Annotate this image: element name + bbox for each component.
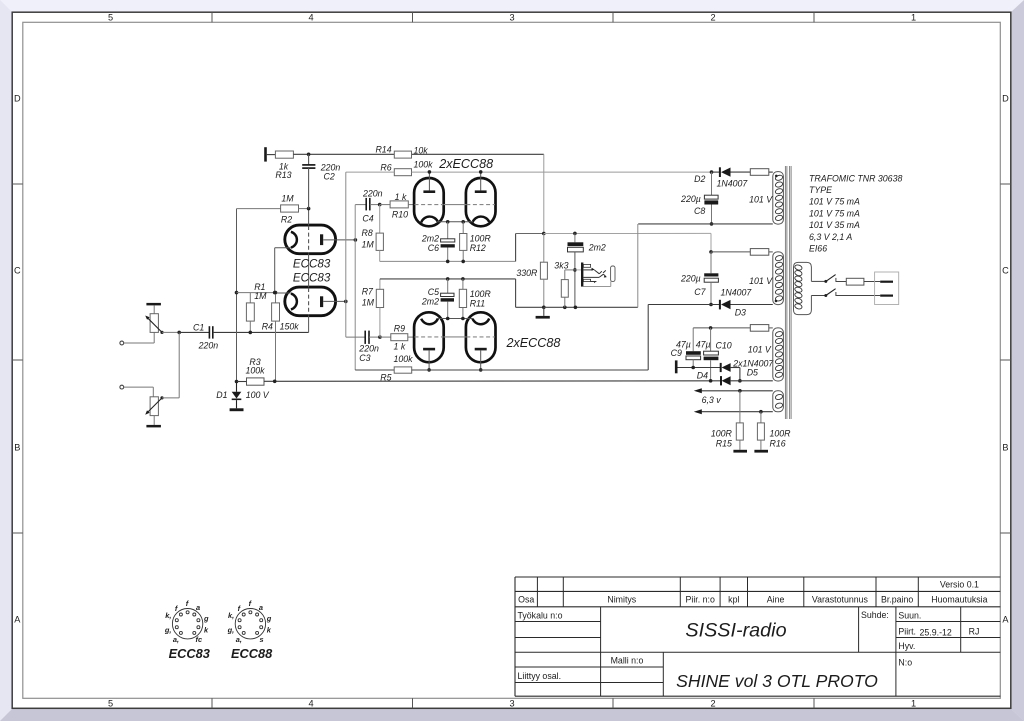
svg-text:TRAFOMIC TNR 30638: TRAFOMIC TNR 30638 xyxy=(809,173,902,183)
svg-text:R2: R2 xyxy=(281,215,292,225)
triode V1b ECC83 xyxy=(285,287,336,316)
anode V1b xyxy=(320,296,323,307)
svg-text:220n: 220n xyxy=(358,344,379,354)
cathode V1b xyxy=(291,294,297,310)
grid V2a xyxy=(415,204,444,206)
resistor R12 xyxy=(462,222,464,234)
wire long rail R3-D4 xyxy=(264,380,721,383)
svg-text:101 V 75 mA: 101 V 75 mA xyxy=(809,197,860,207)
svg-text:1N4007: 1N4007 xyxy=(717,179,749,189)
svg-text:SISSI-radio: SISSI-radio xyxy=(685,620,786,642)
svg-text:k,: k, xyxy=(228,611,234,620)
capacitor 2m2 output xyxy=(574,233,576,242)
ground D1 xyxy=(230,408,244,411)
zone ticks right xyxy=(1000,183,1011,185)
svg-text:Versio 0.1: Versio 0.1 xyxy=(940,580,979,590)
wire B+ rail xyxy=(293,153,543,155)
wire xyxy=(153,332,155,343)
svg-text:A: A xyxy=(1002,615,1009,625)
svg-text:330R: 330R xyxy=(516,268,538,278)
svg-text:B: B xyxy=(1002,443,1008,453)
svg-text:5: 5 xyxy=(108,13,113,23)
svg-text:101 V: 101 V xyxy=(749,194,773,204)
svg-text:4: 4 xyxy=(308,13,313,23)
grid V3a xyxy=(415,336,444,338)
svg-text:R8: R8 xyxy=(362,228,373,238)
fuse winding 3 xyxy=(750,325,769,332)
svg-text:1M: 1M xyxy=(362,297,375,307)
grid link lower xyxy=(444,336,466,338)
svg-text:D2: D2 xyxy=(694,174,705,184)
diode D4 xyxy=(720,376,722,385)
mains switch xyxy=(811,280,825,282)
svg-text:SHINE vol 3 OTL PROTO: SHINE vol 3 OTL PROTO xyxy=(676,671,878,691)
svg-text:Varastotunnus: Varastotunnus xyxy=(812,595,869,605)
capacitor C4 xyxy=(355,204,366,206)
wire xyxy=(124,386,154,388)
svg-text:C: C xyxy=(1002,266,1009,276)
wire xyxy=(162,331,179,333)
mains fuse xyxy=(836,281,846,283)
svg-text:Hyv.: Hyv. xyxy=(898,641,915,651)
wire R6 rail xyxy=(412,171,712,173)
potentiometer P1 xyxy=(150,314,158,333)
cathode rail lower xyxy=(437,318,473,320)
zone ticks top xyxy=(211,12,213,22)
svg-text:Piirt.: Piirt. xyxy=(898,627,916,637)
cathode V1a xyxy=(291,232,297,248)
resistor R10 xyxy=(380,204,390,206)
svg-text:B: B xyxy=(14,443,20,453)
cathode tail V1a xyxy=(275,247,291,249)
svg-text:a,: a, xyxy=(173,635,179,644)
fuse winding 1 xyxy=(750,169,769,176)
capacitor C7 xyxy=(710,252,712,273)
svg-text:Työkalu n:o: Työkalu n:o xyxy=(518,611,563,621)
svg-text:C3: C3 xyxy=(359,353,370,363)
tetrode V3b ECC88 xyxy=(466,312,496,362)
svg-text:Br.paino: Br.paino xyxy=(881,595,913,605)
svg-text:N:o: N:o xyxy=(898,658,912,668)
resistor R11 xyxy=(462,279,464,289)
tetrode V2a ECC88 xyxy=(414,178,444,226)
svg-text:220µ: 220µ xyxy=(680,273,701,283)
svg-text:Huomautuksia: Huomautuksia xyxy=(931,595,987,605)
svg-text:101 V 35 mA: 101 V 35 mA xyxy=(809,220,860,230)
grid wire xyxy=(308,209,310,226)
svg-text:TYPE: TYPE xyxy=(809,185,832,195)
ground pot P1 xyxy=(146,303,161,306)
rail upper cathode network xyxy=(380,260,516,262)
svg-text:D4: D4 xyxy=(697,371,708,381)
wire xyxy=(124,342,155,344)
jack tip terminal xyxy=(611,266,615,281)
supply stub C9 xyxy=(675,360,678,373)
headphone jack xyxy=(575,269,581,271)
svg-text:4: 4 xyxy=(308,699,313,709)
svg-text:1 k: 1 k xyxy=(394,341,406,351)
capacitor C8 xyxy=(711,172,713,195)
svg-text:C: C xyxy=(14,266,21,276)
ground pot P2 xyxy=(153,416,155,425)
resistor R16 xyxy=(760,412,762,423)
potentiometer P2 xyxy=(150,397,158,416)
svg-text:C5: C5 xyxy=(428,287,439,297)
node V1b anode xyxy=(344,300,348,304)
svg-text:g,: g, xyxy=(227,626,235,635)
node cathodes xyxy=(273,291,277,295)
svg-text:R12: R12 xyxy=(470,243,486,253)
svg-text:ECC83: ECC83 xyxy=(293,258,331,271)
wire feedback vertical xyxy=(543,154,545,233)
svg-text:D3: D3 xyxy=(735,307,746,317)
svg-text:2: 2 xyxy=(710,13,715,23)
wire V1a anode to C4 xyxy=(354,205,356,370)
anode lead V1b xyxy=(323,300,346,302)
svg-text:R4: R4 xyxy=(262,322,273,332)
svg-text:A: A xyxy=(14,615,21,625)
cathode V2a xyxy=(421,217,438,223)
svg-text:Suhde:: Suhde: xyxy=(861,610,889,620)
svg-text:3: 3 xyxy=(509,699,514,709)
svg-text:C2: C2 xyxy=(324,172,335,182)
transformer secondary winding 3 (101V) xyxy=(773,328,784,381)
svg-text:R16: R16 xyxy=(770,439,786,449)
svg-text:C1: C1 xyxy=(193,323,204,333)
node grid lower xyxy=(378,335,382,339)
svg-text:k,: k, xyxy=(165,611,171,620)
node output xyxy=(542,232,546,236)
svg-text:ECC88: ECC88 xyxy=(231,646,273,661)
svg-text:100R: 100R xyxy=(711,428,733,438)
svg-text:R13: R13 xyxy=(275,170,291,180)
wire xyxy=(153,305,155,313)
title block xyxy=(515,576,1000,578)
resistor R8 xyxy=(379,205,381,234)
tetrode V2b ECC88 xyxy=(466,178,496,226)
jack sleeve path xyxy=(581,285,611,287)
anode V1a xyxy=(320,234,323,245)
wire cathode rail xyxy=(237,292,275,294)
svg-text:C4: C4 xyxy=(362,213,373,223)
cathode V3b xyxy=(473,319,490,325)
svg-text:100k: 100k xyxy=(245,365,265,375)
capacitor C9 xyxy=(692,328,694,351)
svg-text:2xECC88: 2xECC88 xyxy=(505,336,560,350)
svg-text:101 V: 101 V xyxy=(748,344,772,354)
resistor 3k3 xyxy=(573,268,577,272)
tetrode V3a ECC88 xyxy=(414,312,444,362)
node IN xyxy=(177,331,181,335)
input jack J2 xyxy=(120,385,124,389)
svg-text:Liittyy osal.: Liittyy osal. xyxy=(518,671,562,681)
zone ticks left xyxy=(12,183,23,185)
triode V1a ECC83 xyxy=(285,225,336,254)
svg-text:3: 3 xyxy=(509,13,514,23)
svg-text:RJ: RJ xyxy=(969,627,980,637)
anode V3b xyxy=(475,348,487,351)
svg-text:C7: C7 xyxy=(694,287,706,297)
grid link xyxy=(444,204,466,206)
svg-text:5: 5 xyxy=(108,699,113,709)
svg-text:g: g xyxy=(266,614,272,623)
svg-text:6,3 V 2,1 A: 6,3 V 2,1 A xyxy=(809,232,852,242)
capacitor C1 xyxy=(179,331,209,333)
fuse winding 2 xyxy=(750,249,769,256)
cathode V2b xyxy=(473,217,490,223)
svg-text:R10: R10 xyxy=(392,209,408,219)
anode V2a xyxy=(423,190,435,193)
wire output to winding 2 xyxy=(710,233,712,252)
svg-text:100R: 100R xyxy=(470,233,492,243)
grid V1a xyxy=(308,226,310,253)
svg-text:g: g xyxy=(203,614,209,623)
svg-text:3k3: 3k3 xyxy=(554,260,568,270)
heater line 1 xyxy=(701,390,773,392)
svg-text:Malli n:o: Malli n:o xyxy=(611,656,644,666)
svg-text:100R: 100R xyxy=(470,289,492,299)
diode D3 xyxy=(648,304,720,306)
wiper arrow P1 xyxy=(147,317,162,332)
cathode rail upper xyxy=(437,221,473,223)
svg-text:100R: 100R xyxy=(770,428,792,438)
svg-text:Piir. n:o: Piir. n:o xyxy=(686,595,715,605)
tube socket ECC83 pinout xyxy=(172,609,202,639)
svg-text:220n: 220n xyxy=(362,189,383,199)
wire D3 to anode rail xyxy=(647,305,649,371)
node V1a anode xyxy=(354,238,358,242)
diode D2 xyxy=(712,171,720,173)
svg-text:R5: R5 xyxy=(380,372,391,382)
grid V2b xyxy=(466,204,495,206)
svg-text:fc: fc xyxy=(196,635,203,644)
svg-text:C6: C6 xyxy=(428,243,439,253)
capacitor C5 xyxy=(447,279,449,293)
grid V1b xyxy=(308,288,310,315)
svg-text:D: D xyxy=(14,94,21,104)
zener D1 xyxy=(236,382,238,392)
wire R6 left xyxy=(346,171,395,173)
svg-text:2xECC88: 2xECC88 xyxy=(438,157,493,171)
supply stub resistor R13 xyxy=(264,147,267,161)
wire vertical node A xyxy=(236,209,238,382)
transformer secondary winding 2 (101V) xyxy=(773,252,784,305)
svg-text:2m2: 2m2 xyxy=(588,242,606,252)
ground rail xyxy=(542,306,546,310)
heater line 2 xyxy=(701,411,773,413)
wire xyxy=(162,397,179,399)
resistor R5 xyxy=(355,369,394,371)
svg-text:R14: R14 xyxy=(375,144,391,154)
capacitor C2 xyxy=(308,154,310,164)
svg-text:1N4007: 1N4007 xyxy=(721,288,753,298)
svg-text:1: 1 xyxy=(911,699,916,709)
input jack J1 xyxy=(120,341,124,345)
svg-text:1: 1 xyxy=(911,13,916,23)
svg-text:2m2: 2m2 xyxy=(421,296,439,306)
mains plug xyxy=(875,272,899,305)
svg-text:25.9.-12: 25.9.-12 xyxy=(920,628,952,638)
wiper arrow P2 xyxy=(147,398,162,413)
svg-text:a,: a, xyxy=(236,635,242,644)
anode V2b xyxy=(475,190,487,193)
svg-text:101 V 75 mA: 101 V 75 mA xyxy=(809,208,860,218)
svg-text:kpl: kpl xyxy=(728,595,739,605)
node xyxy=(235,291,239,295)
svg-text:150k: 150k xyxy=(280,322,300,332)
svg-text:1M: 1M xyxy=(281,193,294,203)
resistor R7 xyxy=(379,279,381,289)
svg-text:Aine: Aine xyxy=(767,595,785,605)
svg-text:100 V: 100 V xyxy=(246,390,270,400)
rail lower to ground xyxy=(515,279,517,307)
capacitor C6 xyxy=(447,222,449,239)
transformer core xyxy=(784,166,786,419)
rail lower top xyxy=(380,278,516,280)
svg-text:100k: 100k xyxy=(393,354,413,364)
svg-text:C8: C8 xyxy=(694,206,705,216)
svg-text:100k: 100k xyxy=(414,159,434,169)
svg-text:C10: C10 xyxy=(716,341,732,351)
svg-text:R6: R6 xyxy=(380,163,391,173)
wire winding 2 top xyxy=(711,251,750,253)
svg-text:g,: g, xyxy=(164,626,172,635)
svg-text:a: a xyxy=(196,603,200,612)
resistor 330R xyxy=(543,234,545,263)
svg-text:Osa: Osa xyxy=(518,595,534,605)
node grid upper xyxy=(378,203,382,207)
resistor R2 xyxy=(237,208,281,210)
capacitor C3 xyxy=(346,336,365,338)
capacitor C10 xyxy=(710,328,712,351)
svg-text:R15: R15 xyxy=(716,439,732,449)
svg-text:D1: D1 xyxy=(216,390,227,400)
rail C8 ground xyxy=(710,222,714,226)
svg-text:R9: R9 xyxy=(394,323,405,333)
svg-text:220µ: 220µ xyxy=(680,194,701,204)
transformer primary winding xyxy=(794,262,812,314)
svg-text:R7: R7 xyxy=(362,286,374,296)
svg-text:2m2: 2m2 xyxy=(421,233,439,243)
svg-text:1M: 1M xyxy=(254,291,267,301)
wire output rail xyxy=(544,232,711,234)
svg-text:C9: C9 xyxy=(671,348,682,358)
svg-text:10k: 10k xyxy=(414,145,429,155)
svg-text:Nimitys: Nimitys xyxy=(607,595,636,605)
svg-text:R11: R11 xyxy=(470,298,486,308)
svg-text:D5: D5 xyxy=(747,368,758,378)
cathode tail V1b xyxy=(275,292,291,294)
cathode V3a xyxy=(421,319,438,325)
wire C1 to grid xyxy=(213,331,309,333)
zone ticks bottom xyxy=(211,698,213,708)
node D2 xyxy=(710,170,714,174)
transformer heater winding (6.3V) xyxy=(773,391,784,412)
svg-text:s: s xyxy=(260,635,264,644)
ground symbol xyxy=(543,307,545,316)
resistor R1 xyxy=(249,293,251,303)
svg-text:1M: 1M xyxy=(362,240,375,250)
anode rail lower xyxy=(412,369,649,371)
resistor R9 xyxy=(380,336,391,338)
svg-text:ECC83: ECC83 xyxy=(293,272,331,285)
svg-text:D: D xyxy=(1002,94,1009,104)
resistor R4 xyxy=(274,291,278,295)
phase dot winding 1 xyxy=(775,175,778,178)
tube socket ECC88 pinout xyxy=(235,609,265,639)
transformer secondary winding 1 (101V) xyxy=(773,172,784,225)
anode lead V1a xyxy=(323,239,355,241)
svg-text:6,3 v: 6,3 v xyxy=(702,395,722,405)
svg-text:1 k: 1 k xyxy=(395,192,407,202)
resistor R15 xyxy=(739,391,741,423)
svg-text:2: 2 xyxy=(710,699,715,709)
svg-text:220n: 220n xyxy=(198,341,219,351)
svg-text:101 V: 101 V xyxy=(749,276,773,286)
wire xyxy=(152,387,154,397)
anode V3a xyxy=(423,348,435,351)
grid V3b xyxy=(466,336,495,338)
svg-text:ECC83: ECC83 xyxy=(169,646,210,661)
diode D5 xyxy=(720,363,722,372)
wire winding 3 top xyxy=(693,327,750,329)
node D3 xyxy=(709,303,713,307)
wire xyxy=(178,332,180,398)
svg-text:a: a xyxy=(259,603,263,612)
phase dot winding 2 xyxy=(775,300,778,303)
svg-text:EI66: EI66 xyxy=(809,244,827,254)
svg-text:47µ: 47µ xyxy=(696,339,711,349)
svg-text:Suun.: Suun. xyxy=(898,611,921,621)
